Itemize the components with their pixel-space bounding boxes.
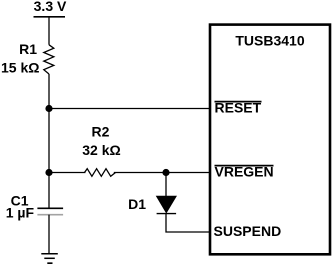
diode D1 xyxy=(157,196,177,213)
wire from D1 cathode down and right to SUSPEND xyxy=(166,214,210,232)
resistor R2 xyxy=(85,169,116,177)
node C junction dot (diode tap) xyxy=(162,169,169,176)
power rail 3.3 V xyxy=(34,0,68,17)
svg-text:3.3 V: 3.3 V xyxy=(34,0,67,14)
wire from R1 to node A xyxy=(48,74,50,109)
wire from node B down to C1 xyxy=(48,173,50,209)
pin VREGEN (active low) xyxy=(215,164,274,180)
svg-text:R1: R1 xyxy=(19,41,37,57)
svg-text:TUSB3410: TUSB3410 xyxy=(235,32,304,48)
node A junction dot (RESET tap) xyxy=(45,105,52,112)
wire from node B to R2 xyxy=(49,172,86,174)
svg-text:32 kΩ: 32 kΩ xyxy=(82,142,120,158)
wire from R2 to chip VREGEN xyxy=(114,172,210,174)
wire from node A down to node B xyxy=(48,109,50,173)
svg-text:1 µF: 1 µF xyxy=(6,205,35,221)
resistor R1 xyxy=(44,45,54,74)
svg-text:SUSPEND: SUSPEND xyxy=(214,223,282,239)
node B junction dot (VREGEN branch) xyxy=(45,169,52,176)
svg-text:R2: R2 xyxy=(92,124,110,140)
ground xyxy=(41,254,58,263)
pin RESET (active low) xyxy=(215,100,262,116)
svg-text:15 kΩ: 15 kΩ xyxy=(1,60,39,76)
wire from C1 to ground xyxy=(48,215,50,254)
wire RESET: node A to chip xyxy=(49,108,210,110)
wire from 3.3 V rail down to R1 xyxy=(48,17,50,45)
capacitor C1 xyxy=(37,208,63,214)
IC U1 TUSB3410 box xyxy=(210,25,330,255)
wire from node C down to D1 anode xyxy=(165,173,167,197)
svg-text:D1: D1 xyxy=(128,196,146,212)
